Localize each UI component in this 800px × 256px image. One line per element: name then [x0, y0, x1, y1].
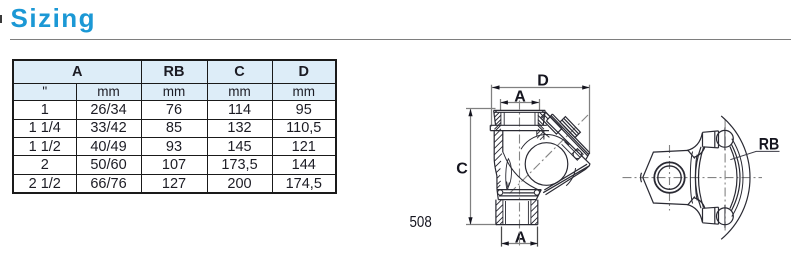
dimension C arrows [468, 109, 472, 225]
dimension A bottom arrows [501, 241, 538, 245]
clamp upper arm [687, 133, 705, 158]
dimension D line [492, 85, 590, 154]
bottom bolt head circle [717, 208, 734, 225]
bore inner circle [658, 166, 681, 189]
horizontal rule [10, 39, 791, 40]
svg-text:C: C [456, 160, 468, 177]
branch lower wall band [543, 160, 590, 195]
end view horizontal centerline [623, 177, 763, 179]
bolt vertical tick marks [724, 128, 726, 228]
top bolt head circle [717, 130, 734, 147]
sizing table [12, 59, 337, 195]
dimension A top arrows [500, 100, 539, 104]
branch bore upper edge [541, 130, 550, 137]
chamber circle arcs [521, 135, 576, 186]
ball [525, 143, 568, 186]
RB leader line [730, 151, 779, 159]
end view vertical centerline through bolts [724, 120, 726, 234]
seat lip lens [506, 159, 512, 190]
svg-text:D: D [537, 73, 549, 90]
svg-text:A: A [515, 229, 527, 246]
svg-text:RB: RB [759, 135, 780, 154]
dimension A top line [500, 99, 539, 110]
dimension D arrows [492, 85, 590, 89]
dimension A bottom line [501, 227, 538, 247]
union o-ring right [534, 190, 539, 195]
cap boss (plug head) [560, 117, 580, 138]
lower lug bolt circle [573, 150, 581, 158]
bottom bolt shank [703, 207, 719, 224]
cap plate [546, 114, 589, 160]
clamp lower arm [687, 198, 705, 223]
seat rings near cap [562, 142, 581, 161]
top port outline [494, 110, 546, 125]
hexagon port [641, 150, 695, 204]
branch upper wall hatched band [541, 112, 562, 134]
body left wall [494, 131, 503, 190]
body wall hatching [494, 131, 503, 189]
top port wall hatching [494, 111, 545, 131]
body right wall below collar [537, 131, 544, 140]
union rings [497, 190, 541, 200]
svg-text:508: 508 [410, 214, 432, 231]
left edge mark [0, 15, 2, 23]
chamber inner wall sweep [503, 153, 541, 191]
title Sizing [11, 3, 97, 34]
dimension C line [466, 109, 497, 225]
body disc inner arc [732, 139, 743, 217]
top port bore lines [501, 112, 538, 125]
bore outer circle [654, 162, 684, 192]
end view hexagon centerline [669, 145, 671, 211]
lower lug outline [572, 149, 584, 161]
collar [490, 125, 549, 130]
clamp left edge arcs [695, 147, 703, 208]
bottom port outline [496, 200, 538, 225]
body disc outer arc [721, 116, 750, 239]
diagonal branch centerline [510, 114, 590, 194]
vertical centerline [519, 101, 521, 248]
neck lines [690, 152, 697, 204]
clamp right edge arcs [730, 145, 740, 211]
svg-text:A: A [514, 89, 526, 106]
top bolt shank [703, 131, 719, 148]
bottom port wall hatching [496, 200, 538, 225]
union o-ring left [498, 190, 503, 195]
bottom port bore lines [503, 200, 531, 225]
